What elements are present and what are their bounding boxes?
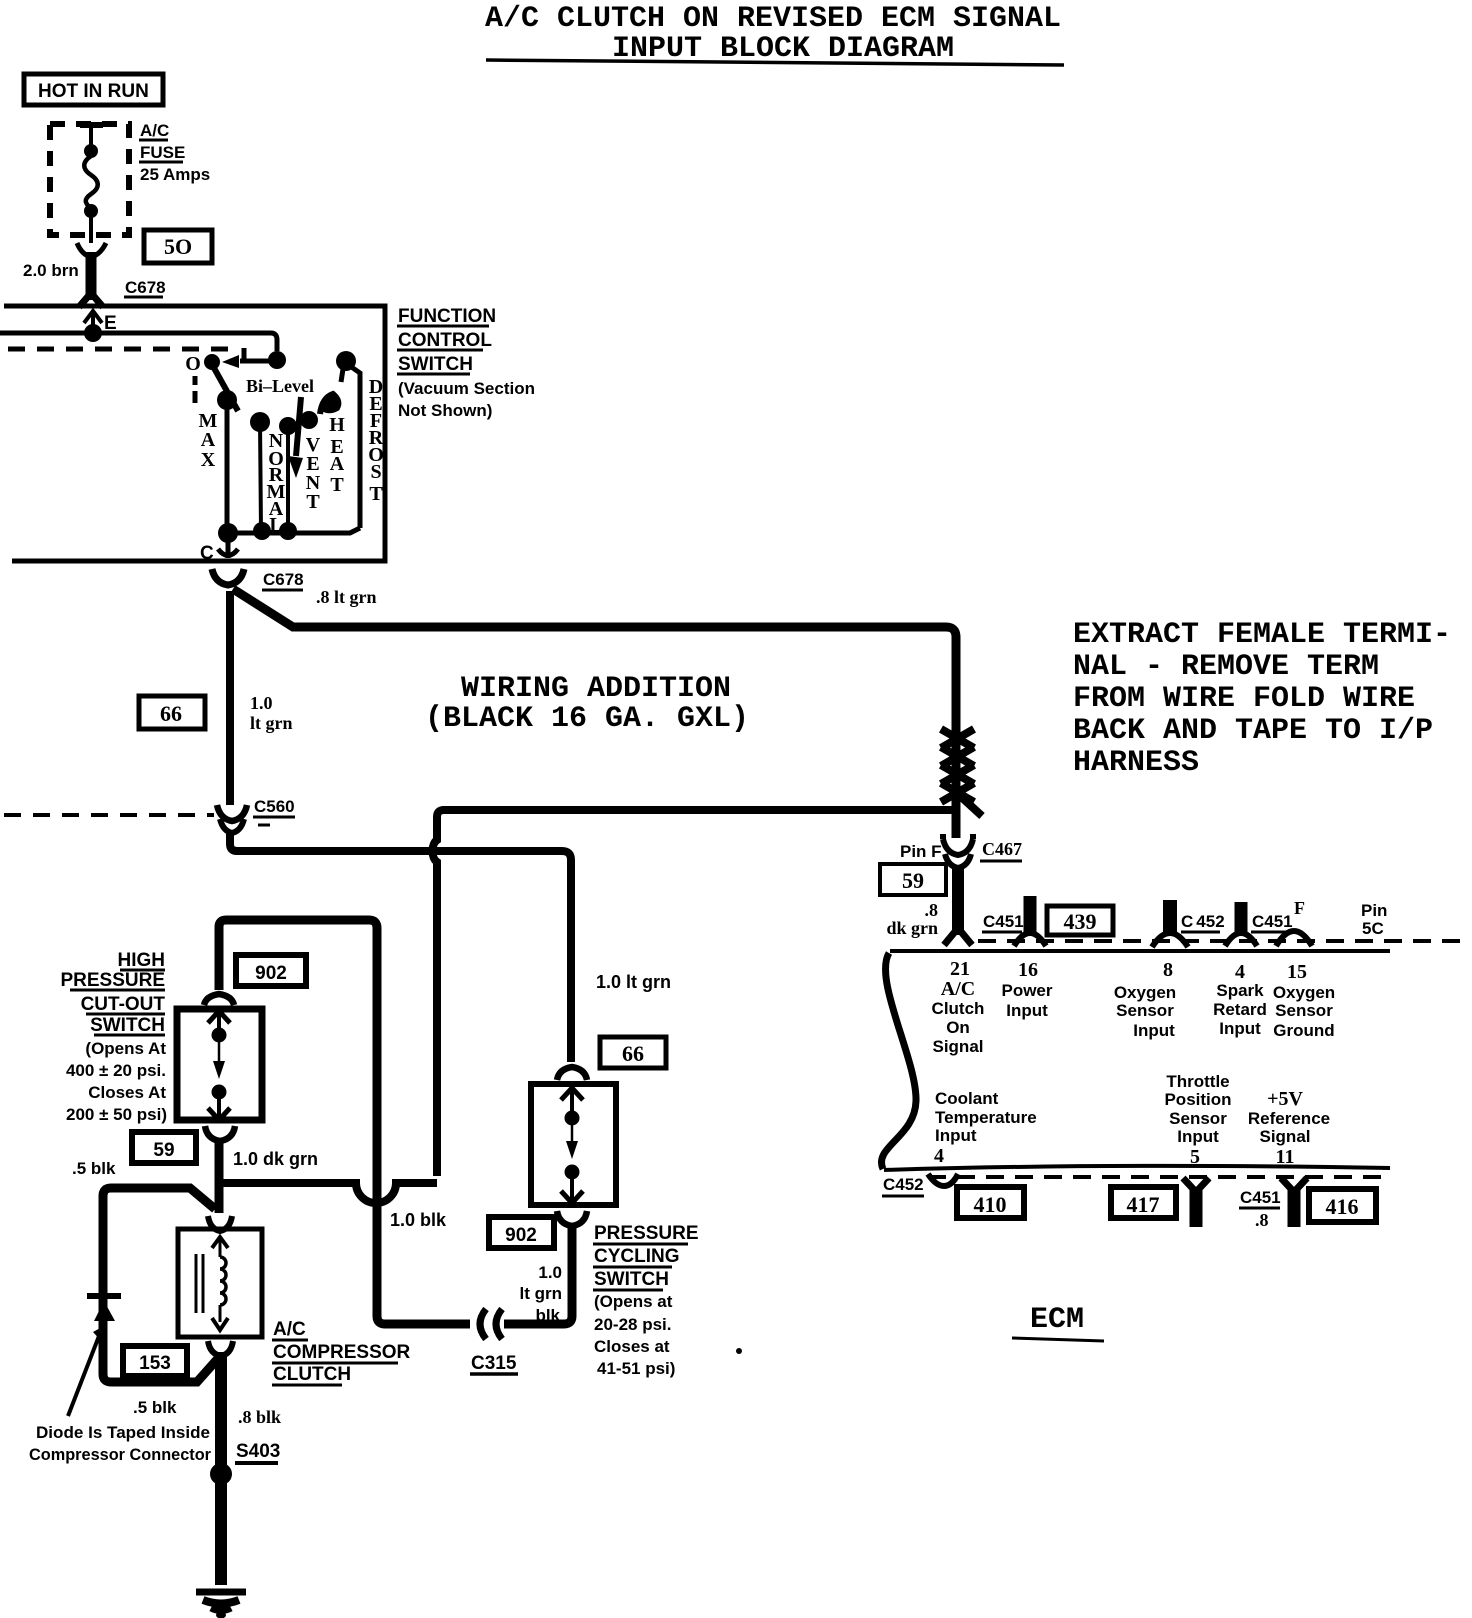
svg-text:dk grn: dk grn <box>886 918 938 938</box>
pin C451 <box>982 896 1046 946</box>
svg-text:FUSE: FUSE <box>140 143 185 162</box>
function control switch box <box>4 306 385 561</box>
svg-text:Pin F: Pin F <box>900 842 942 861</box>
svg-text:5C: 5C <box>1362 919 1384 938</box>
svg-text:(Opens at: (Opens at <box>594 1292 673 1311</box>
svg-text:C678: C678 <box>263 570 304 589</box>
fuse F1 (A/C FUSE 25 Amps) dashed box <box>50 124 129 243</box>
svg-text:Closes At: Closes At <box>88 1083 166 1102</box>
svg-text:X: X <box>201 449 216 471</box>
svg-text:20-28 psi.: 20-28 psi. <box>594 1315 672 1334</box>
contact VENT <box>279 417 297 530</box>
connector C315 <box>470 1309 518 1374</box>
box 417 <box>1111 1187 1176 1218</box>
ECM pin 4 label <box>1213 981 1267 1038</box>
wire .8 blk to ground <box>215 1352 227 1585</box>
svg-text:On: On <box>946 1018 970 1037</box>
connector above pressure cycling switch <box>557 1067 587 1080</box>
svg-text:Bi–Level: Bi–Level <box>246 376 314 396</box>
box 416 <box>1309 1189 1376 1222</box>
svg-text:(Vacuum Section: (Vacuum Section <box>398 379 535 398</box>
label HEAT <box>329 414 345 496</box>
svg-text:C467: C467 <box>982 839 1022 859</box>
note WIRING ADDITION <box>425 672 749 736</box>
svg-text:PRESSURE: PRESSURE <box>60 970 165 991</box>
svg-text:.5 blk: .5 blk <box>72 1159 116 1178</box>
svg-text:25 Amps: 25 Amps <box>140 165 210 184</box>
svg-text:SWITCH: SWITCH <box>594 1269 669 1290</box>
wire MAX branch <box>225 400 230 533</box>
wire 1.0 dk grn switch to clutch <box>215 1140 224 1213</box>
label HIGH PRESSURE CUT-OUT SWITCH <box>60 950 167 1124</box>
svg-text:FROM WIRE FOLD WIRE: FROM WIRE FOLD WIRE <box>1073 682 1415 716</box>
svg-text:C560: C560 <box>254 797 295 816</box>
svg-text:1.0 dk grn: 1.0 dk grn <box>233 1149 318 1169</box>
node C arrow out of switch <box>200 533 238 564</box>
svg-text:lt grn: lt grn <box>520 1284 563 1303</box>
ECM pin numbers top <box>950 958 1307 983</box>
svg-text:153: 153 <box>139 1353 171 1374</box>
wire dashed feed <box>8 348 244 361</box>
stray mark <box>736 1348 742 1354</box>
svg-text:1.0: 1.0 <box>538 1263 562 1282</box>
wire A/C clutch signal horizontal with hop <box>219 1183 437 1203</box>
connector C560 <box>217 797 295 833</box>
svg-text:Oxygen: Oxygen <box>1114 983 1176 1002</box>
svg-text:SWITCH: SWITCH <box>90 1015 165 1036</box>
svg-text:Closes at: Closes at <box>594 1337 670 1356</box>
svg-text:(BLACK 16 GA. GXL): (BLACK 16 GA. GXL) <box>425 702 749 736</box>
label .8 dk grn <box>886 900 938 938</box>
svg-text:T: T <box>306 491 320 513</box>
box 66 (left) <box>139 696 205 729</box>
svg-text:200 ± 50 psi): 200 ± 50 psi) <box>66 1105 167 1124</box>
svg-text:H: H <box>329 414 345 436</box>
wire 1.0 blk (high pressure switch top to C315) <box>219 920 470 1324</box>
contact HEAT with flag <box>300 394 338 429</box>
label MAX <box>199 410 218 471</box>
svg-text:Input: Input <box>1006 1001 1048 1020</box>
svg-text:Retard: Retard <box>1213 1000 1267 1019</box>
label VENT <box>306 434 321 513</box>
label 1.0 lt grn <box>250 693 293 733</box>
svg-text:15: 15 <box>1287 961 1307 983</box>
label FUNCTION CONTROL SWITCH <box>397 306 535 420</box>
svg-text:Temperature: Temperature <box>935 1108 1037 1127</box>
svg-text:Spark: Spark <box>1216 981 1264 1000</box>
wire solid feed to rotor <box>0 333 286 369</box>
svg-text:Sensor: Sensor <box>1275 1001 1333 1020</box>
ECM pin 16 label <box>1001 981 1052 1020</box>
svg-text:902: 902 <box>255 963 287 984</box>
svg-text:S403: S403 <box>236 1441 280 1462</box>
wire pressure cycling switch to C315 <box>504 1227 572 1324</box>
svg-text:1.0 lt grn: 1.0 lt grn <box>596 972 671 992</box>
svg-text:PRESSURE: PRESSURE <box>594 1223 699 1244</box>
svg-text:Sensor: Sensor <box>1116 1001 1174 1020</box>
wire .8 dk grn into ECM pin 21 <box>944 869 972 945</box>
box 902 (pressure cycling) <box>489 1217 554 1248</box>
svg-text:BACK AND TAPE TO I/P: BACK AND TAPE TO I/P <box>1073 714 1433 748</box>
svg-text:439: 439 <box>1064 909 1097 934</box>
svg-text:Input: Input <box>1177 1127 1219 1146</box>
pressure cycling switch <box>531 1084 616 1205</box>
connector below high pressure cut-out switch <box>205 1126 235 1141</box>
node E entering function switch <box>84 311 117 342</box>
svg-text:HOT IN RUN: HOT IN RUN <box>38 81 149 102</box>
ECM block outline <box>881 951 1390 1170</box>
ECM +5V reference label <box>1248 1088 1330 1168</box>
label A/C FUSE 25 Amps <box>139 121 210 184</box>
svg-text:C451: C451 <box>1252 912 1293 931</box>
wire 1.0 lt grn (C678 to C560) <box>226 591 234 805</box>
box 153 <box>123 1346 187 1376</box>
svg-text:FUNCTION: FUNCTION <box>398 306 496 327</box>
connector C467 <box>900 815 1022 868</box>
svg-text:NAL - REMOVE TERM: NAL - REMOVE TERM <box>1073 650 1379 684</box>
pin Y (416) <box>1281 1178 1307 1227</box>
svg-text:Clutch: Clutch <box>932 999 985 1018</box>
svg-text:400 ± 20 psi.: 400 ± 20 psi. <box>66 1061 166 1080</box>
svg-text:Input: Input <box>935 1126 977 1145</box>
svg-text:Ground: Ground <box>1273 1021 1334 1040</box>
svg-text:41-51 psi): 41-51 psi) <box>597 1359 675 1378</box>
svg-text:A: A <box>330 453 345 475</box>
svg-text:CYCLING: CYCLING <box>594 1246 680 1267</box>
label NORMAL <box>267 430 286 536</box>
svg-text:C678: C678 <box>125 278 166 297</box>
ECM bottom dashed connector row <box>928 1175 1390 1179</box>
svg-text:Signal: Signal <box>1259 1127 1310 1146</box>
empty terminal pin 5C <box>1276 901 1387 946</box>
svg-text:Input: Input <box>1133 1021 1175 1040</box>
svg-text:Power: Power <box>1001 981 1052 1000</box>
svg-text:Diode Is Taped Inside: Diode Is Taped Inside <box>36 1423 210 1442</box>
svg-text:4: 4 <box>1235 961 1245 983</box>
bus at switch bottom <box>218 522 360 543</box>
svg-text:16: 16 <box>1018 959 1038 981</box>
svg-text:C452: C452 <box>1181 912 1225 931</box>
connector C678 label (upper) <box>124 278 166 297</box>
svg-text:Pin: Pin <box>1361 901 1387 920</box>
svg-text:902: 902 <box>505 1225 537 1246</box>
svg-text:.8 lt grn: .8 lt grn <box>316 587 377 607</box>
svg-text:WIRING ADDITION: WIRING ADDITION <box>461 672 731 706</box>
svg-text:2.0 brn: 2.0 brn <box>23 261 79 280</box>
wire dashed stub left of C560 <box>4 813 214 817</box>
svg-text:A/C: A/C <box>140 121 169 140</box>
svg-text:5O: 5O <box>164 234 192 259</box>
label PRESSURE CYCLING SWITCH <box>593 1223 699 1378</box>
A/C compressor clutch <box>178 1216 262 1356</box>
box 410 <box>957 1187 1024 1218</box>
connector C451 (bottom) <box>1239 1188 1281 1230</box>
svg-text:COMPRESSOR: COMPRESSOR <box>273 1342 411 1363</box>
svg-text:Sensor: Sensor <box>1169 1109 1227 1128</box>
svg-text:C315: C315 <box>471 1353 517 1374</box>
ECM coolant temperature label <box>934 1089 1037 1167</box>
note arrow to diode <box>68 1327 103 1416</box>
svg-text:C: C <box>200 543 214 564</box>
high pressure cut-out switch <box>177 1009 262 1120</box>
note EXTRACT FEMALE TERMINAL <box>1073 618 1451 780</box>
svg-text:+5V: +5V <box>1267 1088 1303 1110</box>
label A/C COMPRESSOR CLUTCH <box>272 1319 411 1385</box>
pin Y (417) <box>1183 1178 1209 1227</box>
wire .5 blk loop with diode <box>103 1188 221 1382</box>
svg-text:Reference: Reference <box>1248 1109 1330 1128</box>
svg-text:.5 blk: .5 blk <box>133 1398 177 1417</box>
svg-text:A/C: A/C <box>273 1319 306 1340</box>
label 1.0 lt grn blk <box>520 1263 563 1325</box>
svg-text:.8: .8 <box>1255 1210 1269 1230</box>
label ECM <box>1012 1303 1104 1341</box>
svg-text:A: A <box>201 429 216 451</box>
svg-text:1.0 blk: 1.0 blk <box>390 1210 447 1230</box>
svg-text:66: 66 <box>622 1041 644 1066</box>
connector below pressure cycling switch <box>557 1211 587 1226</box>
HOT IN RUN box <box>24 74 163 105</box>
wire pin F horizontal (wiring addition lower run) <box>433 810 953 1176</box>
contact DEFROST <box>336 351 360 528</box>
connector C452 (bottom) <box>882 1174 958 1196</box>
svg-text:HIGH: HIGH <box>118 950 166 971</box>
label DEFROST <box>368 376 384 505</box>
svg-text:Throttle: Throttle <box>1166 1072 1229 1091</box>
svg-text:(Opens At: (Opens At <box>85 1039 166 1058</box>
svg-text:5: 5 <box>1190 1146 1200 1168</box>
svg-text:O: O <box>185 353 201 375</box>
title <box>485 2 1064 66</box>
svg-text:T: T <box>369 483 383 505</box>
svg-text:T: T <box>330 474 344 496</box>
svg-text:8: 8 <box>1163 959 1173 981</box>
contact NORMAL <box>250 412 270 530</box>
box 50 <box>144 230 212 263</box>
box 439 <box>1047 906 1113 935</box>
box 59 (pin F) <box>880 864 946 895</box>
svg-text:C451: C451 <box>1240 1188 1281 1207</box>
svg-text:ECM: ECM <box>1030 1303 1084 1337</box>
svg-text:21: 21 <box>950 958 970 980</box>
svg-text:Compressor Connector: Compressor Connector <box>29 1445 211 1464</box>
svg-text:.8 blk: .8 blk <box>238 1407 281 1427</box>
wire lt grn from C560 to pressure cycling switch <box>230 834 571 1062</box>
ECM pin 21 label <box>932 978 985 1056</box>
svg-text:CLUTCH: CLUTCH <box>273 1364 351 1385</box>
svg-text:HARNESS: HARNESS <box>1073 746 1199 780</box>
diode <box>87 1296 121 1321</box>
svg-text:416: 416 <box>1326 1194 1359 1219</box>
svg-text:EXTRACT FEMALE TERMI-: EXTRACT FEMALE TERMI- <box>1073 618 1451 652</box>
svg-text:59: 59 <box>153 1140 174 1161</box>
Bi-Level wiper arrow <box>288 397 303 478</box>
svg-text:A/C CLUTCH ON REVISED ECM SIGN: A/C CLUTCH ON REVISED ECM SIGNAL <box>485 2 1061 36</box>
svg-text:Oxygen: Oxygen <box>1273 983 1335 1002</box>
ECM pin 15 label <box>1273 983 1335 1040</box>
pin C452 <box>1152 900 1225 947</box>
rotor contact O <box>185 353 238 411</box>
ECM connector dashed row <box>978 939 1462 943</box>
note Diode Is Taped Inside Compressor Connector <box>29 1423 211 1464</box>
svg-text:Not Shown): Not Shown) <box>398 401 492 420</box>
connector half below fuse <box>77 243 106 257</box>
svg-text:66: 66 <box>160 701 182 726</box>
pin C451 F <box>1225 898 1305 946</box>
wire 2.0 brn <box>79 252 103 307</box>
svg-text:4: 4 <box>934 1145 944 1167</box>
connector C678 (lower) <box>212 569 304 590</box>
svg-text:Input: Input <box>1219 1019 1261 1038</box>
svg-text:C452: C452 <box>883 1175 924 1194</box>
svg-text:CONTROL: CONTROL <box>398 330 492 351</box>
ground <box>196 1592 246 1618</box>
svg-text:11: 11 <box>1276 1146 1295 1168</box>
svg-text:410: 410 <box>974 1192 1007 1217</box>
wire .8 lt grn to ECM (wiring addition upper run) <box>233 589 956 733</box>
box 66 (right) <box>600 1037 666 1068</box>
box 902 (high pressure) <box>236 955 306 986</box>
ECM pin 8 label <box>1114 983 1176 1040</box>
svg-text:.8: .8 <box>925 900 939 920</box>
svg-text:59: 59 <box>902 868 924 893</box>
svg-text:CUT-OUT: CUT-OUT <box>81 994 166 1015</box>
svg-text:F: F <box>1294 898 1305 918</box>
svg-text:C451: C451 <box>983 912 1024 931</box>
svg-text:417: 417 <box>1127 1192 1160 1217</box>
svg-text:lt grn: lt grn <box>250 713 293 733</box>
svg-text:SWITCH: SWITCH <box>398 354 473 375</box>
svg-text:1.0: 1.0 <box>250 693 273 713</box>
splice twist (extract terminal) <box>941 729 982 816</box>
connector above high pressure cut-out switch <box>204 994 234 1005</box>
box 59 (left) <box>132 1132 196 1163</box>
svg-text:Coolant: Coolant <box>935 1089 999 1108</box>
svg-text:S: S <box>370 461 381 483</box>
svg-text:Signal: Signal <box>932 1037 983 1056</box>
svg-text:Position: Position <box>1164 1090 1231 1109</box>
ECM throttle position label <box>1164 1072 1231 1168</box>
splice S403 <box>210 1441 280 1485</box>
svg-text:A/C: A/C <box>941 978 975 1000</box>
